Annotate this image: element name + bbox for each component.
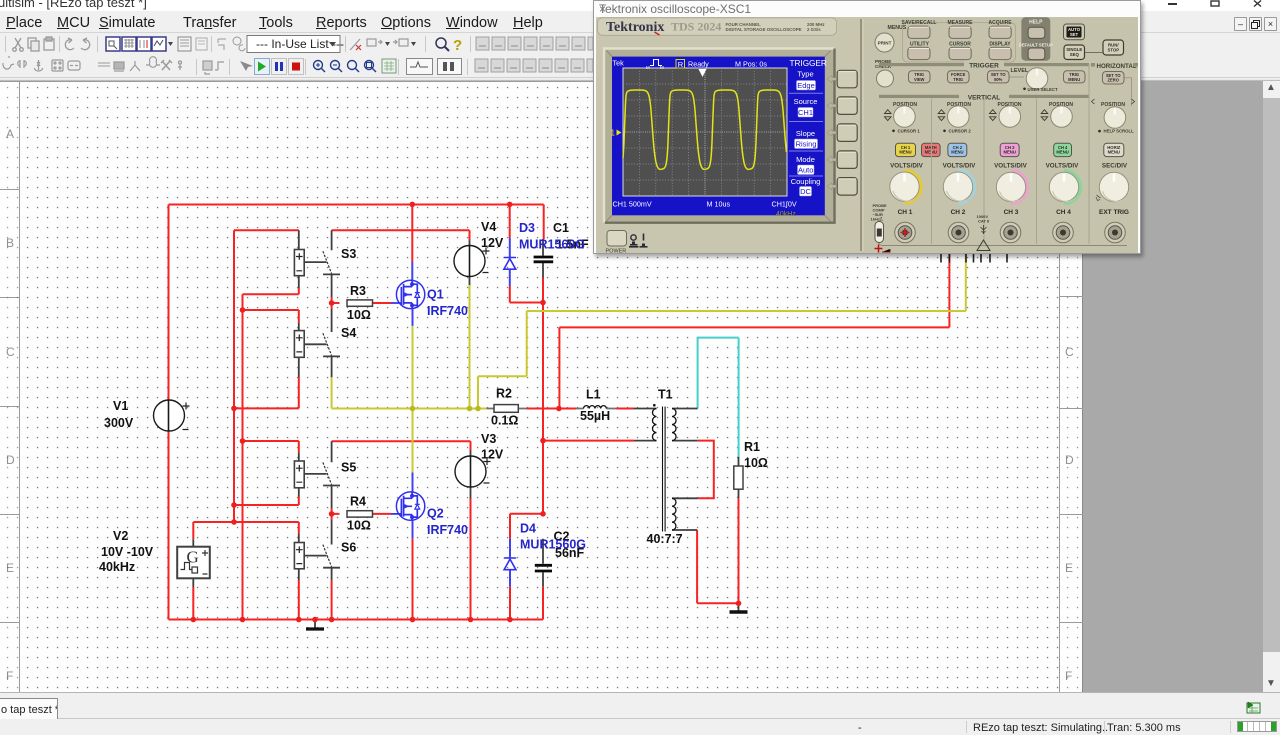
- svg-text:10Ω: 10Ω: [347, 308, 371, 322]
- svg-text:CH 4: CH 4: [1056, 209, 1071, 216]
- svg-text:ACQUIRE: ACQUIRE: [988, 20, 1012, 26]
- svg-text:10Ω: 10Ω: [744, 456, 768, 470]
- svg-text:L1: L1: [586, 388, 601, 402]
- svg-text:POWER: POWER: [606, 249, 627, 254]
- svg-text:IRF740: IRF740: [427, 523, 468, 537]
- svg-text:CH 2: CH 2: [951, 209, 966, 216]
- svg-text:Q1: Q1: [427, 288, 444, 302]
- svg-text:STOP: STOP: [1107, 47, 1119, 52]
- svg-text:TRIG: TRIG: [953, 77, 963, 82]
- svg-text:12V: 12V: [481, 236, 504, 250]
- svg-text:R2: R2: [496, 387, 512, 401]
- svg-text:Edge: Edge: [797, 81, 815, 90]
- svg-text:LEVEL: LEVEL: [1011, 68, 1029, 74]
- svg-text:M 10us: M 10us: [707, 200, 731, 209]
- svg-text:PRINT: PRINT: [878, 41, 892, 46]
- svg-text:R3: R3: [350, 284, 366, 298]
- svg-text:Rising: Rising: [796, 140, 817, 149]
- svg-text:EXT TRIG: EXT TRIG: [1099, 209, 1129, 216]
- svg-text:V4: V4: [481, 220, 496, 234]
- svg-text:S3: S3: [341, 247, 356, 261]
- svg-text:IRF740: IRF740: [427, 304, 468, 318]
- svg-text:MENU: MENU: [1004, 150, 1016, 155]
- svg-text:CH 1: CH 1: [898, 209, 913, 216]
- svg-text:T1: T1: [658, 388, 673, 402]
- svg-text:HORIZONTAL: HORIZONTAL: [1097, 63, 1137, 70]
- svg-text:VOLTS/DIV: VOLTS/DIV: [1046, 163, 1080, 170]
- svg-text:MENU: MENU: [1056, 150, 1068, 155]
- svg-text:SAVE/RECALL: SAVE/RECALL: [902, 20, 937, 26]
- svg-text:CH1 500mV: CH1 500mV: [613, 200, 652, 209]
- svg-text:DIGITAL STORAGE OSCILLOSCOPE: DIGITAL STORAGE OSCILLOSCOPE: [726, 27, 802, 32]
- svg-text:DC: DC: [800, 187, 811, 196]
- svg-text:2 GS/s: 2 GS/s: [807, 27, 821, 32]
- svg-text:MENU: MENU: [899, 150, 911, 155]
- svg-text:0.1Ω: 0.1Ω: [491, 414, 518, 428]
- svg-text:C1: C1: [553, 221, 569, 235]
- svg-text:HELP SCROLL: HELP SCROLL: [1104, 129, 1135, 134]
- svg-text:MUR1560G: MUR1560G: [520, 538, 586, 552]
- svg-text:40:7:7: 40:7:7: [647, 532, 683, 546]
- svg-text:V1: V1: [113, 399, 128, 413]
- svg-text:SET: SET: [1070, 32, 1079, 37]
- svg-text:S4: S4: [341, 326, 356, 340]
- svg-text:SEC/DIV: SEC/DIV: [1102, 163, 1128, 170]
- svg-text:Source: Source: [794, 97, 818, 106]
- svg-text:55µH: 55µH: [580, 409, 610, 423]
- svg-text:1: 1: [611, 129, 616, 138]
- svg-text:TRIGGER: TRIGGER: [969, 63, 999, 70]
- svg-text:CH1: CH1: [798, 108, 813, 117]
- svg-text:MUR1560G: MUR1560G: [519, 238, 585, 252]
- svg-text:Auto: Auto: [798, 166, 813, 175]
- svg-text:ZERO: ZERO: [1108, 78, 1120, 83]
- svg-text:40kHz: 40kHz: [776, 211, 796, 218]
- svg-text:CAT II: CAT II: [978, 219, 989, 224]
- svg-text:D3: D3: [519, 221, 535, 235]
- svg-text:Tek: Tek: [613, 59, 625, 68]
- svg-text:10Ω: 10Ω: [347, 519, 371, 533]
- svg-text:M: M: [660, 65, 664, 70]
- svg-text:MEASURE: MEASURE: [947, 20, 973, 26]
- svg-text:10V -10V: 10V -10V: [101, 545, 154, 559]
- svg-text:V3: V3: [481, 432, 496, 446]
- svg-text:DISPLAY: DISPLAY: [989, 41, 1011, 47]
- svg-text:CH 3: CH 3: [1004, 209, 1019, 216]
- svg-text:VOLTS/DIV: VOLTS/DIV: [890, 163, 924, 170]
- svg-text:VOLTS/DIV: VOLTS/DIV: [943, 163, 977, 170]
- svg-text:R4: R4: [350, 495, 366, 509]
- svg-text:Ready: Ready: [688, 60, 709, 69]
- svg-text:S6: S6: [341, 541, 356, 555]
- svg-text:1kHz⎍: 1kHz⎍: [871, 217, 883, 222]
- svg-text:G: G: [187, 548, 199, 567]
- svg-text:CURSOR 1: CURSOR 1: [898, 128, 921, 133]
- svg-text:12V: 12V: [481, 448, 504, 462]
- svg-text:D4: D4: [520, 522, 536, 536]
- svg-text:50%: 50%: [994, 77, 1003, 82]
- svg-text:TDS 2024: TDS 2024: [671, 20, 721, 34]
- svg-text:V2: V2: [113, 529, 128, 543]
- svg-text:40kHz: 40kHz: [99, 560, 135, 574]
- svg-text:VOLTS/DIV: VOLTS/DIV: [994, 163, 1028, 170]
- svg-text:Slope: Slope: [796, 129, 815, 138]
- svg-text:DEFAULT SETUP: DEFAULT SETUP: [1019, 43, 1053, 48]
- svg-text:R: R: [678, 60, 684, 69]
- svg-text:VIEW: VIEW: [914, 77, 925, 82]
- svg-text:M Pos: 0s: M Pos: 0s: [735, 60, 767, 69]
- svg-text:300V: 300V: [104, 416, 134, 430]
- svg-text:MENU: MENU: [1108, 150, 1120, 155]
- svg-text:CURSOR 2: CURSOR 2: [949, 128, 972, 133]
- svg-text:CURSOR: CURSOR: [949, 41, 971, 47]
- svg-text:UTILITY: UTILITY: [910, 41, 930, 47]
- svg-text:MENU: MENU: [951, 150, 963, 155]
- svg-text:SEQ: SEQ: [1070, 52, 1080, 57]
- svg-text:Type: Type: [797, 70, 813, 79]
- svg-text:M: M: [646, 65, 650, 70]
- svg-text:Coupling: Coupling: [791, 177, 821, 186]
- svg-text:MENU: MENU: [925, 150, 937, 155]
- svg-text:TRIGGER: TRIGGER: [790, 59, 827, 68]
- svg-text:S5: S5: [341, 461, 356, 475]
- svg-text:USER SELECT: USER SELECT: [1028, 87, 1058, 92]
- svg-text:HELP: HELP: [1029, 20, 1043, 26]
- svg-text:CH1∫0V: CH1∫0V: [772, 200, 797, 209]
- svg-text:MENU: MENU: [1068, 77, 1080, 82]
- svg-text:R1: R1: [744, 440, 760, 454]
- svg-text:Mode: Mode: [796, 155, 815, 164]
- svg-text:Q2: Q2: [427, 507, 444, 521]
